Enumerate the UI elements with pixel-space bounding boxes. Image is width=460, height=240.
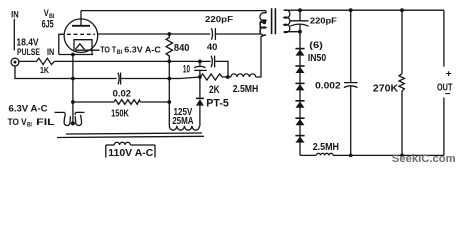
wire OUT column [443,10,445,66]
svg-text:25MA: 25MA [172,116,193,127]
diode D4 [295,100,304,102]
capacitor 0.002 [350,10,352,82]
wire diode chain [299,32,301,156]
wire secondary top rail [284,9,444,11]
svg-text:6.3V A-C: 6.3V A-C [124,44,161,54]
transformer T2 secondary [284,10,290,33]
node 0.02 right [167,77,171,81]
node trimmer bottom [198,75,202,79]
svg-text:SeekIC.com: SeekIC.com [392,153,456,165]
wire 150K to bus [140,101,169,103]
svg-text:IN: IN [47,47,54,58]
wire grid row [98,33,170,35]
inductor 2.5MH (left) [222,76,231,78]
wire plate top [81,10,266,12]
wire bottom rail [300,154,316,156]
diode PT-5 [199,77,201,98]
transformer T2 core [271,8,273,34]
node 2K right / 40cap [226,75,230,79]
wire to 40 cap [200,60,211,62]
svg-text:2K: 2K [209,84,220,96]
diode D2 [295,65,304,67]
wire grid left loop [59,34,65,54]
node 150K right [167,100,171,104]
diode D6 [295,135,304,137]
transformer T1 core [66,133,202,134]
node return-bus crossing [71,77,75,81]
node primary tap [262,20,266,24]
wire 0.02bus to 2K [169,78,180,80]
svg-text:2.5MH: 2.5MH [233,84,259,95]
transformer T_BI filament winding [55,111,65,113]
diode D5 [295,117,304,119]
svg-text:TO V: TO V [8,116,28,127]
node cathode junction [71,53,75,57]
wire 40 cap to 2K row [215,61,228,77]
capacitor 220pF (filter) [299,10,301,21]
wire 220pF to primary tap [215,22,264,34]
node 150K left [71,100,75,104]
svg-text:1K: 1K [40,65,49,75]
tube cathode sleeve [74,40,92,55]
wire 1K to bus [54,60,200,62]
node 270K bottom [400,154,404,158]
node filament center tap [71,121,75,125]
svg-text:150K: 150K [111,108,129,119]
resistor 2K [200,74,223,80]
svg-text:40: 40 [207,42,218,53]
capacitor 40 [211,56,212,67]
wire 0.02 to bus [121,78,170,80]
svg-text:FIL: FIL [36,116,55,127]
wire 169 bus [168,61,170,125]
tube grid (dashed) [67,33,95,35]
svg-text:TO T: TO T [100,44,117,54]
svg-text:0.002: 0.002 [315,80,341,91]
diode D1 [295,48,304,50]
wire cathode line [59,54,94,56]
wire cathode bus [72,55,74,124]
resistor 1K [37,58,55,64]
transformer T2 pulse primary [265,11,267,14]
wire secondary bottom [284,31,300,33]
svg-text:PULSE: PULSE [17,47,40,58]
svg-text:840: 840 [174,43,190,54]
svg-text:(6): (6) [309,40,323,50]
resistor 840 [166,34,172,61]
tube plate [72,25,90,27]
svg-text:BI: BI [117,50,123,56]
wire 150K row [73,101,114,103]
tube filament [75,44,84,49]
svg-text:+: + [446,69,452,80]
wire 2.5MH to primary bottom [256,35,266,77]
svg-text:220pF: 220pF [205,14,233,24]
wire terminal return [15,66,117,79]
capacitor 0.02 [118,73,119,85]
node trimmer top [198,60,202,64]
svg-text:270K: 270K [373,83,399,94]
svg-text:110V A-C: 110V A-C [108,148,153,159]
node 840 bottom [167,60,171,64]
resistor 270K [401,10,403,73]
transformer T1 primary 110V A-C [106,144,114,146]
svg-text:PT-5: PT-5 [206,98,229,110]
node rail 220pF [298,8,302,12]
svg-text:6.3V A-C: 6.3V A-C [9,103,48,114]
svg-text:−: − [445,89,451,100]
svg-text:0.02: 0.02 [113,88,131,99]
capacitor 220pF (coupling) [211,28,212,40]
svg-text:220pF: 220pF [310,15,337,25]
wire filament to T_BI [75,49,99,51]
svg-text:BI: BI [27,123,32,129]
wire 1K input row [19,60,37,62]
node rail 0.002 [349,8,353,12]
svg-text:6J5: 6J5 [42,18,54,30]
diode D3 [295,82,304,84]
resistor 150K [114,100,140,105]
wire IN lead [13,19,15,51]
node rail 270K [400,8,404,12]
inductor 2.5MH (right) [316,153,333,155]
svg-text:2.5MH: 2.5MH [313,142,339,153]
tube V_BI envelope [64,19,98,53]
node secondary bottom [298,30,302,34]
node grid-840 junction [167,32,171,36]
input terminal J1 [11,58,19,66]
svg-text:IN50: IN50 [308,53,327,64]
svg-text:10: 10 [183,64,190,76]
node 0.002 bottom [349,154,353,158]
